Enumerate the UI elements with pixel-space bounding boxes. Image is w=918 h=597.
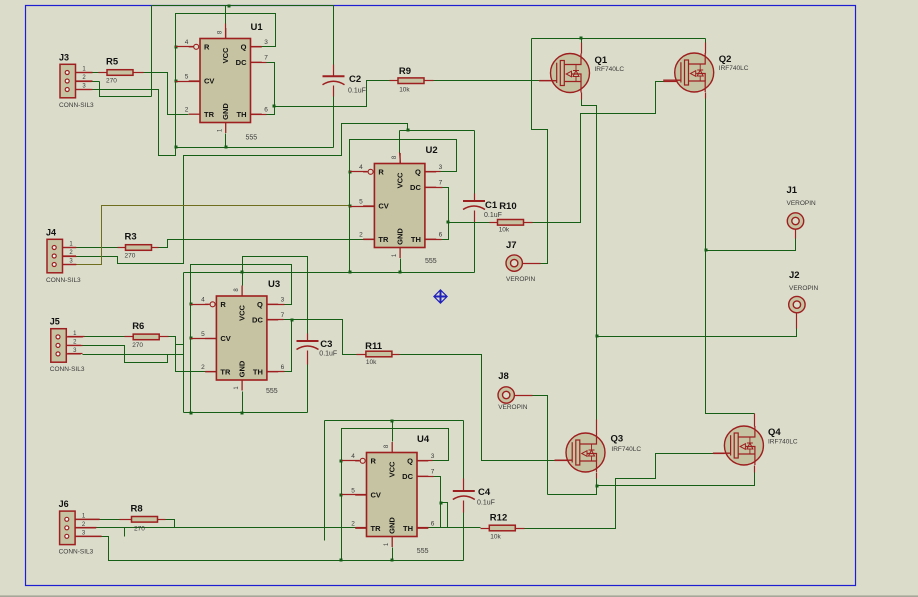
svg-text:2: 2 xyxy=(185,107,189,114)
wire C2 bottom to U1 gnd rail xyxy=(333,97,335,148)
svg-text:7: 7 xyxy=(264,55,268,62)
junction U4 R pin xyxy=(340,460,343,463)
pin stub J6.3 xyxy=(76,536,102,538)
svg-text:CONN-SIL3: CONN-SIL3 xyxy=(50,366,85,373)
lead Q3 gate xyxy=(555,460,569,462)
wire top rail to J7 xyxy=(532,39,548,264)
junction U4 CV pin xyxy=(340,494,343,497)
junction Q3 source node xyxy=(596,485,599,488)
svg-text:CV: CV xyxy=(204,77,214,86)
svg-text:270: 270 xyxy=(132,342,143,349)
junction Q1 drain / rail xyxy=(580,37,583,40)
svg-text:Q: Q xyxy=(241,42,247,51)
svg-text:270: 270 xyxy=(106,78,117,85)
svg-text:CONN-SIL3: CONN-SIL3 xyxy=(59,102,94,109)
pin stub J4.1 xyxy=(63,247,77,249)
connector J5 CONN-SIL3 (input 3) xyxy=(50,317,85,374)
wire J3.1 to R5 xyxy=(93,72,99,74)
wire J4.1 to R3 xyxy=(77,247,118,249)
lead Q4 drain xyxy=(754,414,756,427)
wire U2 Q to R loop xyxy=(350,140,457,273)
svg-text:J5: J5 xyxy=(50,317,60,327)
svg-text:R12: R12 xyxy=(490,513,507,524)
svg-text:IRF740LC: IRF740LC xyxy=(768,439,798,446)
wire Q2 drain drop xyxy=(705,39,707,43)
svg-text:270: 270 xyxy=(134,526,145,533)
svg-text:J3: J3 xyxy=(59,52,69,62)
lead Q2 gate xyxy=(664,81,677,83)
svg-text:3: 3 xyxy=(281,297,285,304)
J8 VEROPIN (source tap) xyxy=(498,371,528,411)
lead R10 left xyxy=(490,222,498,224)
lead C2 top xyxy=(333,65,335,77)
svg-text:555: 555 xyxy=(246,135,258,142)
lead R11 left xyxy=(357,354,366,356)
svg-text:J2: J2 xyxy=(789,270,800,281)
svg-text:C2: C2 xyxy=(349,74,361,85)
lead C2 bottom xyxy=(333,86,335,97)
pin stub U2 VCC(8) xyxy=(400,153,401,164)
wire U2 DC-TH tie xyxy=(442,188,449,240)
wire U3 R stub link xyxy=(191,304,209,306)
svg-text:7: 7 xyxy=(281,312,285,319)
pin stub U4 TH(6) xyxy=(418,527,429,529)
svg-text:Q1: Q1 xyxy=(595,55,608,66)
wire J5.1 to R6 xyxy=(85,336,125,338)
lead Q1 drain xyxy=(581,43,583,54)
junction U3 DC node xyxy=(291,319,294,322)
connector J6 CONN-SIL3 (input 4) xyxy=(59,499,102,555)
svg-text:TH: TH xyxy=(403,524,413,533)
wire U1 Q to R loop xyxy=(176,14,276,148)
svg-text:0.1uF: 0.1uF xyxy=(477,500,495,507)
svg-text:4: 4 xyxy=(351,453,355,460)
wire U3 CV stub link xyxy=(191,338,217,340)
svg-text:R9: R9 xyxy=(399,66,411,77)
svg-text:TR: TR xyxy=(371,524,382,533)
pin stub J4.2 xyxy=(63,256,77,258)
wire U1 gnd rail xyxy=(176,147,334,149)
lead R9 right xyxy=(425,80,434,82)
resistor R3 270 (J4 series) xyxy=(125,232,152,260)
pin stub J6.1 xyxy=(76,519,100,521)
wire U1 CV stub link xyxy=(176,81,200,83)
svg-text:Q: Q xyxy=(257,300,263,309)
wire J3.3 to U1 gnd rail xyxy=(91,90,176,156)
wire link J6.2-J6.3 xyxy=(124,528,126,537)
svg-text:R: R xyxy=(371,456,377,465)
svg-text:IRF740LC: IRF740LC xyxy=(595,66,625,73)
555 timer U4 xyxy=(351,434,435,555)
svg-text:3: 3 xyxy=(439,164,443,171)
resistor R5 270 (J3 series) xyxy=(106,57,133,85)
svg-text:0.1uF: 0.1uF xyxy=(348,88,366,95)
pin stub J2 xyxy=(796,314,798,329)
pin stub U2 DC(7) xyxy=(425,187,443,189)
wire U3 VCC to C3 top xyxy=(243,257,308,334)
svg-text:4: 4 xyxy=(359,164,363,171)
wire source node down-left xyxy=(548,486,597,495)
svg-text:6: 6 xyxy=(439,232,443,239)
wire J1 to output node xyxy=(706,239,796,251)
svg-text:R6: R6 xyxy=(132,321,144,332)
svg-text:5: 5 xyxy=(359,198,363,205)
junction U2 TH/DC node xyxy=(447,221,450,224)
svg-text:5: 5 xyxy=(351,487,355,494)
wire U4 GND stub to rail xyxy=(392,548,394,561)
svg-text:R10: R10 xyxy=(499,201,516,212)
wire U4 R stub link xyxy=(342,460,360,462)
pin stub U2 TH(6) xyxy=(425,239,442,241)
resistor R6 270 (J5 series) xyxy=(132,321,159,349)
wire U4 Q to R loop xyxy=(342,429,449,561)
wire J5.2 detour xyxy=(83,346,168,363)
wire J6.2 / TR line U4 xyxy=(97,527,356,529)
wire J3 pin2 xyxy=(100,82,152,97)
wire U2 VCC drop xyxy=(399,131,401,153)
svg-text:VCC: VCC xyxy=(387,461,396,477)
svg-text:C3: C3 xyxy=(320,339,332,350)
svg-text:VEROPIN: VEROPIN xyxy=(787,200,817,207)
wire R8 to TR line xyxy=(166,520,175,528)
svg-text:GND: GND xyxy=(387,517,396,534)
svg-text:3: 3 xyxy=(431,453,435,460)
wire DC node to R11 xyxy=(292,320,357,355)
pin stub J5.2 xyxy=(68,345,83,347)
wire U4 DC-TH tie xyxy=(434,477,441,528)
capacitor C3 0.1uF (U3 decoupling) xyxy=(297,339,338,358)
pin stub J8 xyxy=(515,395,533,397)
wire J3.2 xyxy=(92,81,100,83)
wire C1 top xyxy=(474,131,476,194)
svg-text:U4: U4 xyxy=(417,434,430,445)
pin stub U1 TH(6) xyxy=(251,114,267,116)
wire Q2 source to Q4 drain xyxy=(706,99,755,414)
pin stub U3 Q(3) xyxy=(267,304,285,306)
svg-text:555: 555 xyxy=(417,548,429,555)
svg-text:R: R xyxy=(378,167,384,176)
wire U4 CV stub link xyxy=(342,494,367,496)
svg-text:Q: Q xyxy=(407,456,413,465)
pin stub J5.3 xyxy=(68,353,83,355)
wire riser J3.2 to top rail xyxy=(151,6,153,97)
lead C3 top xyxy=(307,334,309,342)
J2 VEROPIN (output B) xyxy=(789,270,819,313)
svg-text:R3: R3 xyxy=(125,232,137,243)
svg-text:IRF740LC: IRF740LC xyxy=(719,65,749,72)
wire R10 to Q2 gate xyxy=(533,82,664,223)
svg-text:J7: J7 xyxy=(506,240,517,251)
pin stub J6.2 xyxy=(76,527,97,529)
J1 VEROPIN (output A) xyxy=(787,185,817,229)
pin stub U3 DC(7) xyxy=(267,319,284,321)
wire TH/DC node to R10 xyxy=(449,222,490,224)
svg-text:C1: C1 xyxy=(485,200,498,211)
resistor R9 10k (to Q1 gate) xyxy=(398,66,424,94)
junction U4 DC node xyxy=(440,502,443,505)
connector J3 CONN-SIL3 (input 1) xyxy=(59,52,94,109)
junction U2 CV pin xyxy=(349,205,352,208)
lead C3 bottom xyxy=(307,351,309,365)
wire R3 to U2 TR xyxy=(159,240,364,248)
wire Q3 source drop xyxy=(596,479,598,486)
svg-text:10k: 10k xyxy=(366,359,377,366)
lead Q2 drain xyxy=(705,43,707,54)
lead U2 TR xyxy=(364,239,375,241)
wire J8 to source node xyxy=(533,396,548,495)
wire J6.3 to U4 gnd rail xyxy=(102,537,342,561)
lead Q3 drain xyxy=(596,420,598,434)
wire U4 VCC rail riser xyxy=(324,421,326,541)
svg-text:J8: J8 xyxy=(498,371,509,382)
svg-text:C4: C4 xyxy=(478,487,491,498)
svg-text:Q: Q xyxy=(415,167,421,176)
svg-text:R11: R11 xyxy=(365,341,383,352)
wire R12 to Q4 gate xyxy=(525,454,714,529)
svg-text:10k: 10k xyxy=(490,534,501,541)
svg-text:7: 7 xyxy=(431,469,435,476)
svg-text:VEROPIN: VEROPIN xyxy=(506,276,536,283)
svg-text:J6: J6 xyxy=(59,499,69,509)
555 timer U1 xyxy=(185,22,269,142)
wire DC node jog xyxy=(441,503,448,528)
junction U1 TH/DC node xyxy=(273,105,276,108)
lead C4 top xyxy=(463,479,465,492)
wire U3 gnd rail xyxy=(184,412,308,414)
svg-text:4: 4 xyxy=(185,39,189,46)
junction U4 GND pin xyxy=(391,559,394,562)
wire R11 to Q3 gate xyxy=(400,355,555,461)
svg-text:R: R xyxy=(204,42,210,51)
wire top rail to C2 xyxy=(333,6,335,65)
pin stub J1 xyxy=(795,230,797,239)
wire Q3 source to Q4 source xyxy=(597,473,755,486)
svg-text:6: 6 xyxy=(431,521,435,528)
lead R6 left xyxy=(125,336,134,338)
svg-text:U1: U1 xyxy=(251,22,264,33)
capacitor C4 0.1uF (U4 decoupling) xyxy=(453,487,495,507)
lead C4 bottom xyxy=(463,501,465,513)
svg-text:GND: GND xyxy=(221,103,230,120)
wire drain top rail Q1-Q2 xyxy=(532,38,706,40)
junction U2 GND pin xyxy=(399,271,402,274)
lead Q2 source xyxy=(705,93,707,99)
svg-text:270: 270 xyxy=(125,253,136,260)
wire U4 gnd rail xyxy=(342,560,464,562)
junction U2 R pin xyxy=(349,171,352,174)
pin stub U2 Q(3) xyxy=(425,171,441,173)
wire C1 bottom to rail xyxy=(474,223,476,273)
lead U4 TR xyxy=(356,527,367,529)
wire U1 VCC drop xyxy=(225,6,227,24)
junction U4 rail left xyxy=(340,559,343,562)
svg-text:6: 6 xyxy=(281,364,285,371)
junction U3 R pin xyxy=(190,303,193,306)
lead R9 left xyxy=(390,80,399,82)
lead R3 right xyxy=(152,247,159,249)
pin stub U4 Q(3) xyxy=(418,460,433,462)
svg-text:2: 2 xyxy=(359,232,363,239)
svg-text:CV: CV xyxy=(378,202,388,211)
lead R8 left xyxy=(120,519,132,521)
wire TH to R12 xyxy=(429,527,481,529)
svg-text:CV: CV xyxy=(220,334,230,343)
svg-text:555: 555 xyxy=(425,258,437,265)
svg-text:VEROPIN: VEROPIN xyxy=(789,285,819,292)
wire J5.3 to riser xyxy=(83,354,184,356)
transistor Q1 (upper left) xyxy=(539,54,590,93)
lead U3 TR xyxy=(206,371,217,373)
svg-text:5: 5 xyxy=(201,331,205,338)
wire U3 DC-TH tie xyxy=(284,320,292,372)
svg-text:4: 4 xyxy=(201,297,205,304)
wire Q1 drain drop xyxy=(581,39,583,43)
lead R6 right xyxy=(160,336,169,338)
wire J2 to output node xyxy=(597,329,797,337)
wire J4.2 to U2 VCC net xyxy=(77,124,408,264)
transistor Q2 (upper right) xyxy=(663,53,714,92)
resistor R10 10k (to Q2 gate) xyxy=(498,201,524,234)
svg-text:0.1uF: 0.1uF xyxy=(484,212,502,219)
lead Q4 source xyxy=(754,466,756,473)
wire C4 bottom to rail xyxy=(463,513,465,561)
junction U2 VCC node xyxy=(407,129,410,132)
svg-text:GND: GND xyxy=(395,228,404,245)
svg-text:TH: TH xyxy=(253,367,263,376)
lead C1 bottom xyxy=(474,211,476,223)
wire R6 to U3 TR xyxy=(169,337,206,372)
svg-text:GND: GND xyxy=(237,360,246,377)
svg-text:CONN-SIL3: CONN-SIL3 xyxy=(46,277,81,284)
svg-text:TH: TH xyxy=(411,235,421,244)
svg-text:TR: TR xyxy=(378,235,389,244)
svg-text:6: 6 xyxy=(264,107,268,114)
wire R5 to U1 TR xyxy=(144,73,189,115)
lead R5 right xyxy=(134,72,144,74)
wire U4 VCC drop xyxy=(392,421,394,442)
svg-text:Q3: Q3 xyxy=(611,434,624,445)
lead Q1 gate xyxy=(540,80,553,82)
lead R11 right xyxy=(392,354,400,356)
junction U1 CV pin xyxy=(175,80,178,83)
pin stub U1 Q(3) xyxy=(251,46,262,48)
junction U3 loop / rail xyxy=(190,412,193,415)
lead R10 right xyxy=(524,222,533,224)
wire C3 bottom to U3 rail xyxy=(307,365,309,413)
origin crosshair marker xyxy=(435,291,447,303)
lead Q4 gate xyxy=(714,453,725,455)
junction U2 loop / rail xyxy=(349,271,352,274)
svg-text:2: 2 xyxy=(201,364,205,371)
wire J6.1 to R8 xyxy=(100,519,120,521)
svg-text:Q2: Q2 xyxy=(719,54,732,65)
svg-text:2: 2 xyxy=(351,521,355,528)
pin stub J4.3 xyxy=(63,264,77,266)
lead Q1 source xyxy=(581,93,583,100)
resistor R11 10k (to Q3 gate) xyxy=(365,341,392,366)
pin stub J7 xyxy=(523,263,541,265)
wire U2 CV stub link xyxy=(350,206,375,208)
svg-text:IRF740LC: IRF740LC xyxy=(611,446,641,453)
J7 VEROPIN (supply) xyxy=(506,240,536,283)
svg-text:R8: R8 xyxy=(131,503,143,514)
svg-text:CONN-SIL3: CONN-SIL3 xyxy=(59,549,94,556)
connector J4 CONN-SIL3 (input 2) xyxy=(46,227,81,283)
svg-text:TH: TH xyxy=(237,110,247,119)
junction U1 gnd rail left xyxy=(175,146,178,149)
wire U1 R stub link xyxy=(176,46,194,48)
svg-text:CV: CV xyxy=(371,491,381,500)
wire U3 Q to R loop xyxy=(191,265,292,413)
svg-text:R: R xyxy=(220,300,226,309)
555 timer U2 xyxy=(359,145,443,265)
svg-text:TR: TR xyxy=(220,367,231,376)
wire C4 top xyxy=(463,421,465,479)
wire U4 VCC rail xyxy=(325,420,464,422)
junction U3 CV pin xyxy=(190,337,193,340)
svg-text:VCC: VCC xyxy=(237,305,246,321)
svg-text:10k: 10k xyxy=(399,87,410,94)
junction U3 VCC / rail crossing xyxy=(241,271,244,274)
svg-text:5: 5 xyxy=(185,73,189,80)
capacitor C1 0.1uF (U2 decoupling) xyxy=(463,200,502,219)
svg-text:DC: DC xyxy=(410,183,421,192)
wire J4.3 to U2 CV (olive) xyxy=(77,206,350,265)
junction J1 tap xyxy=(705,249,708,252)
svg-text:7: 7 xyxy=(439,180,443,187)
svg-text:R5: R5 xyxy=(106,57,119,68)
lead R12 left xyxy=(481,528,490,530)
junction U4 VCC xyxy=(391,420,394,423)
svg-text:VCC: VCC xyxy=(395,172,404,188)
wire VCC top rail U1 (net J3.2) xyxy=(152,5,334,7)
transistor Q4 (lower right) xyxy=(713,426,764,465)
svg-text:Q4: Q4 xyxy=(768,427,781,438)
lead R5 left xyxy=(99,72,108,74)
transistor Q3 (lower left) xyxy=(555,433,606,472)
svg-text:0.1uF: 0.1uF xyxy=(319,351,337,358)
wire U2 R stub link xyxy=(350,171,368,173)
junction J2 tap xyxy=(596,335,599,338)
svg-text:DC: DC xyxy=(402,472,413,481)
pin stub J3.2 xyxy=(76,81,92,83)
window bottom edge strip xyxy=(0,595,918,597)
pin stub J5.1 xyxy=(68,336,85,338)
pin stub U1 VCC(8) xyxy=(225,24,227,39)
svg-text:VCC: VCC xyxy=(221,47,230,63)
junction U1 R pin xyxy=(175,46,178,49)
wire U2 GND stub to rail xyxy=(400,259,402,273)
wire U1 TH-DC tie xyxy=(267,63,275,115)
wire U1 GND stub to rail xyxy=(225,134,227,148)
svg-text:DC: DC xyxy=(236,58,247,67)
svg-text:10k: 10k xyxy=(499,227,510,234)
wire TH/DC node to R9 xyxy=(275,81,390,107)
lead R8 right xyxy=(158,519,166,521)
capacitor C2 0.1uF (U1 decoupling) xyxy=(323,74,366,95)
svg-text:3: 3 xyxy=(264,39,268,46)
junction U1 VCC / top rail xyxy=(228,5,231,8)
pin stub U4 DC(7) xyxy=(418,476,434,478)
junction U3 GND pin xyxy=(241,412,244,415)
svg-text:555: 555 xyxy=(266,388,278,395)
lead C1 top xyxy=(474,194,476,202)
svg-text:U3: U3 xyxy=(268,279,280,290)
svg-text:TR: TR xyxy=(204,110,215,119)
resistor R8 270 (J6 series) xyxy=(131,503,158,532)
pin stub J3.1 xyxy=(76,72,93,74)
svg-text:J4: J4 xyxy=(46,227,56,237)
